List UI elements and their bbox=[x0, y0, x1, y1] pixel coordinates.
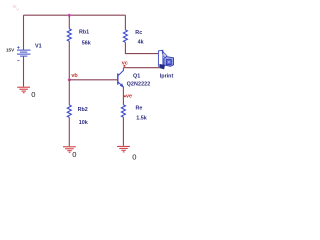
svg-text:Q2N2222: Q2N2222 bbox=[127, 82, 151, 88]
svg-text:1.5k: 1.5k bbox=[136, 115, 147, 121]
svg-text:Q1: Q1 bbox=[133, 74, 140, 80]
ground (battery) bbox=[17, 87, 30, 93]
svg-text:56k: 56k bbox=[82, 41, 91, 47]
svg-text:0: 0 bbox=[132, 152, 136, 161]
svg-text:Iprint: Iprint bbox=[160, 73, 174, 79]
svg-text:Rb1: Rb1 bbox=[79, 30, 89, 36]
battery V1 bbox=[17, 46, 31, 60]
svg-text:Rb2: Rb2 bbox=[78, 107, 88, 113]
faint smudge artifact top-left bbox=[13, 5, 20, 11]
wire Rb1 top bbox=[68, 15, 70, 29]
svg-text:V1: V1 bbox=[35, 44, 42, 50]
wire base bbox=[69, 79, 117, 81]
svg-text:0: 0 bbox=[72, 150, 76, 159]
svg-text:vb: vb bbox=[71, 73, 78, 79]
svg-text:10k: 10k bbox=[79, 120, 88, 126]
wire Rb1 bottom to vb bbox=[68, 41, 70, 80]
wire Rc bottom to printer top pin bbox=[125, 42, 158, 53]
resistor Re bbox=[121, 105, 125, 117]
wire collector to printer bottom pin bbox=[123, 67, 160, 69]
ground (Rb2) bbox=[63, 147, 76, 153]
svg-text:4k: 4k bbox=[138, 39, 144, 45]
resistor Rb1 bbox=[67, 29, 71, 41]
wire emitter down to Re bbox=[122, 87, 124, 105]
resistor Rb2 bbox=[67, 105, 71, 117]
node vb junction bbox=[68, 78, 71, 81]
svg-text:Rc: Rc bbox=[135, 30, 142, 36]
transistor Q1 bbox=[118, 68, 124, 88]
wire Re to ground bbox=[122, 117, 124, 146]
svg-text:0: 0 bbox=[31, 90, 35, 99]
wire left vertical to battery bbox=[23, 15, 25, 50]
svg-text:Re: Re bbox=[136, 106, 143, 112]
wire Rb2 to ground bbox=[68, 117, 70, 146]
wire vb to Rb2 bbox=[68, 80, 70, 105]
wire top rail bbox=[24, 14, 126, 16]
svg-text:ve: ve bbox=[126, 94, 132, 100]
ground (Re) bbox=[117, 146, 130, 152]
wire battery to ground bbox=[23, 57, 25, 87]
junction node at Rb1 top bbox=[68, 14, 71, 17]
wire Rc top bbox=[124, 15, 126, 30]
svg-text:15V: 15V bbox=[6, 47, 15, 52]
resistor Rc bbox=[123, 30, 127, 42]
iprint printer icon U1 bbox=[158, 50, 173, 69]
